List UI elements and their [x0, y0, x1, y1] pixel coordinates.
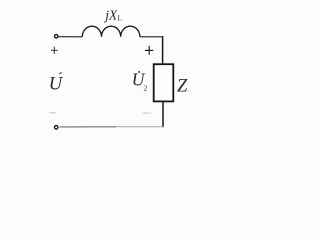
- wire top-right segment: [140, 36, 163, 38]
- dot accent above U: [59, 72, 61, 74]
- svg-text:L: L: [118, 14, 123, 23]
- svg-text:U: U: [49, 75, 64, 95]
- svg-text:Z: Z: [177, 76, 188, 96]
- faint minus left: [49, 112, 56, 114]
- svg-text:jX: jX: [103, 8, 118, 23]
- wire right vertical lower: [162, 101, 164, 127]
- terminal bottom-left: [54, 126, 58, 130]
- wire top-left segment: [59, 36, 83, 38]
- wire right vertical upper: [162, 36, 164, 64]
- inductor coil: [82, 26, 140, 37]
- faint minus right: [143, 112, 151, 115]
- impedance box Z: [154, 64, 174, 101]
- plus sign left: [51, 47, 58, 54]
- dot accent above U2: [138, 71, 140, 73]
- terminal top-left: [54, 35, 58, 39]
- wire bottom: [115, 126, 163, 128]
- period after Z: [188, 90, 189, 91]
- svg-text:2: 2: [143, 84, 147, 93]
- wire bottom darker part: [60, 126, 117, 128]
- plus sign right: [145, 46, 154, 55]
